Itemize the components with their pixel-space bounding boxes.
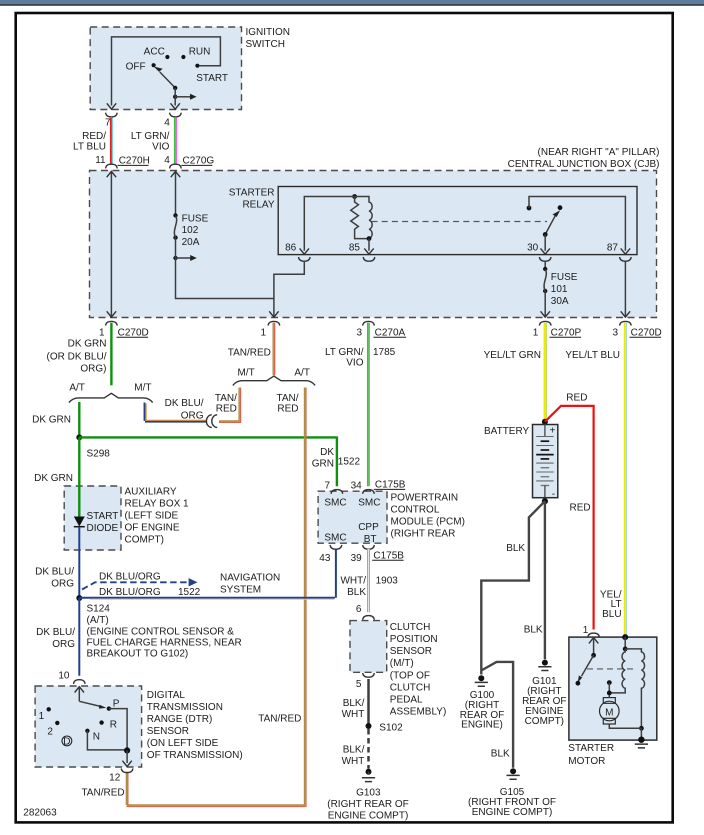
svg-text:BLU: BLU [602,609,621,620]
svg-text:CLUTCH: CLUTCH [390,622,431,633]
svg-text:TAN/RED: TAN/RED [81,788,124,799]
svg-text:WHT: WHT [342,756,365,767]
wire fuse 102 to pin 1 C270 tan feed [176,238,274,299]
svg-text:DIGITAL: DIGITAL [147,690,186,701]
relay fixed contact to pin 87 [527,206,532,211]
svg-text:ORG: ORG [181,411,204,422]
svg-text:5: 5 [356,679,362,690]
starter solenoid switch [589,638,598,644]
wire LT GRN/VIO pin4 to C270G [174,118,176,164]
connector halves below ignition switch [106,113,118,117]
svg-text:FUSE: FUSE [551,272,578,283]
svg-text:DK GRN: DK GRN [32,415,71,426]
svg-text:(LEFT SIDE: (LEFT SIDE [125,511,179,522]
svg-text:4: 4 [164,118,170,129]
svg-text:DK BLU/: DK BLU/ [165,398,204,409]
wire pivot to bottom edge [174,88,176,106]
wire fuse 101 to C270P [544,291,546,317]
svg-text:86: 86 [285,243,297,254]
wire BLK/WHT dashed S102 to G103 [367,729,370,769]
wire coil top to pin 86 [304,197,354,251]
svg-text:ASSEMBLY): ASSEMBLY) [390,707,447,718]
connector C270D pin 3 [620,321,632,325]
battery BAT [533,425,558,498]
ground G101 [542,660,548,666]
connector C270D pin 1 [106,321,118,325]
svg-text:BREAKOUT TO G102): BREAKOUT TO G102) [87,649,189,660]
svg-text:DK BLU/: DK BLU/ [36,627,75,638]
inline connector halves [206,415,211,428]
wire DK GRN S298 to PCM pin 7 [79,436,337,486]
connector starter pin 1 [588,633,600,637]
wire TAN/RED C270 pin1 down [272,323,274,375]
svg-text:SENSOR: SENSOR [147,726,189,737]
contact ACC [165,55,169,59]
wire relay 87 to C270D [624,262,626,317]
svg-text:6: 6 [356,604,362,615]
CJB wire from C270H pin 11 to C270D pin 1 [110,172,112,317]
svg-text:MODULE (PCM): MODULE (PCM) [391,517,465,528]
svg-text:+: + [549,425,555,436]
DTR contact 1 [47,707,51,711]
svg-text:YEL/LT GRN: YEL/LT GRN [484,350,541,361]
wire BLK battery to G100 [481,501,545,674]
svg-text:N: N [93,732,100,743]
connector clutch pin 5 [363,673,375,677]
wire YEL/LT GRN C270P to battery [544,323,546,422]
connector C175B PCM pin 43 [330,545,342,549]
svg-text:OFF: OFF [126,62,146,73]
svg-text:SWITCH: SWITCH [246,39,285,50]
svg-text:ENGINE COMPT): ENGINE COMPT) [472,807,553,818]
svg-text:(NEAR RIGHT "A" PILLAR): (NEAR RIGHT "A" PILLAR) [538,147,660,158]
wire DK BLU/ORG diode to S124 [78,527,80,598]
svg-text:S102: S102 [379,723,403,734]
solenoid hold-in winding [625,649,644,728]
starter motor box [569,637,657,740]
DTR contact P [107,706,111,710]
svg-text:4: 4 [164,155,170,166]
svg-text:DK BLU/ORG: DK BLU/ORG [99,572,161,583]
solenoid mechanical link [587,668,634,670]
svg-text:SYSTEM: SYSTEM [220,584,261,595]
svg-text:1522: 1522 [178,587,201,598]
svg-text:3: 3 [356,328,362,339]
svg-text:GRN: GRN [312,458,334,469]
motor M [603,698,615,704]
fuse F102 20A [173,213,177,217]
contact START [195,64,199,68]
svg-text:YEL/LT BLU: YEL/LT BLU [565,350,620,361]
svg-text:30: 30 [527,243,539,254]
wire relay 86 down joining tan feed [274,262,304,317]
wire DK GRN S298 to start diode [78,437,80,516]
svg-text:(ENGINE CONTROL SENSOR &: (ENGINE CONTROL SENSOR & [87,627,235,638]
svg-text:(RIGHT REAR: (RIGHT REAR [391,529,456,540]
wire RED/LT BLU pin7 to C270H [110,118,112,164]
wire DK BLU/ORG M/T branch to inline connector [144,403,146,421]
DTR contact 2 [55,721,59,725]
svg-text:NAVIGATION: NAVIGATION [220,572,280,583]
svg-text:COMPT): COMPT) [525,716,564,727]
DTR sensor box [35,686,142,767]
svg-text:CPP: CPP [358,522,379,533]
connector C270H [106,164,118,168]
svg-text:BLK: BLK [506,543,525,554]
relay coil winding [355,197,373,239]
svg-text:SMC: SMC [358,498,380,509]
connector DTR pin 10 [74,680,86,684]
splice S102 [366,723,372,729]
svg-text:87: 87 [607,243,619,254]
connector C270G [170,164,182,168]
relay switch blade pin 30 [545,214,556,234]
svg-text:M/T: M/T [134,383,151,394]
PCM box [318,491,387,543]
wire DK GRN A/T branch to S298 [78,402,80,436]
svg-text:ENGINE): ENGINE) [461,719,503,730]
ignition switch SW box [90,27,241,110]
svg-text:282063: 282063 [23,807,57,818]
svg-text:DK GRN: DK GRN [34,473,73,484]
DTR contact D circled [62,736,72,746]
DTR entry arrow [75,687,84,693]
svg-text:S124: S124 [87,603,111,614]
svg-text:7: 7 [105,118,111,129]
svg-text:IGNITION: IGNITION [246,27,290,38]
svg-text:BLK: BLK [491,749,510,760]
svg-text:1: 1 [39,711,45,722]
junction with arrow to other circuits [173,256,177,260]
svg-text:A/T: A/T [69,383,85,394]
DTR wire P and N to pin 12 [87,709,127,751]
svg-text:RED: RED [570,502,591,513]
svg-text:85: 85 [349,243,361,254]
connector C175B PCM pin 34 [363,490,375,494]
ground starter case [638,737,644,743]
brace split A/T M/T on DK GRN [69,393,153,402]
svg-text:M: M [605,708,613,719]
svg-text:OF TRANSMISSION): OF TRANSMISSION) [147,750,243,761]
svg-text:FUEL CHARGE HARNESS, NEAR: FUEL CHARGE HARNESS, NEAR [87,638,242,649]
wire TAN/RED inline connector to M/T brace [219,388,239,421]
contact RUN [181,55,185,59]
svg-text:VIO: VIO [346,357,363,368]
central junction box CJB [90,171,657,318]
svg-text:M/T: M/T [237,368,254,379]
svg-text:R: R [110,720,117,731]
svg-text:ORG): ORG) [80,364,106,375]
svg-text:1: 1 [583,625,589,636]
svg-text:7: 7 [324,480,330,491]
start diode D1 [74,517,85,527]
contact OFF [152,63,156,67]
svg-text:RUN: RUN [189,47,211,58]
svg-text:2: 2 [47,727,53,738]
wire WHT/BLK PCM 39 to clutch sensor [367,549,370,612]
wire DK BLU/ORG S124 to PCM pin 43 [79,549,336,598]
svg-text:DIODE: DIODE [87,523,119,534]
wire coil bottom to pin 85 [368,239,370,251]
svg-text:RANGE (DTR): RANGE (DTR) [147,714,213,725]
svg-text:101: 101 [551,284,568,295]
relay mechanical link [372,221,548,223]
svg-text:BATTERY: BATTERY [484,426,530,437]
svg-text:TAN/: TAN/ [215,393,237,404]
svg-text:-: - [552,489,555,500]
connector C175B PCM pin 39 [363,545,375,549]
svg-text:POWERTRAIN: POWERTRAIN [391,493,459,504]
svg-text:3: 3 [612,328,618,339]
svg-text:LT BLU: LT BLU [73,141,106,152]
svg-text:BT: BT [364,534,377,545]
wire BLK battery to G101 [544,501,546,659]
connector C175B PCM pin 7 [331,490,343,494]
connector C270A pin 3 [363,321,375,325]
svg-text:D: D [63,736,70,747]
wire DK BLU/ORG S124 to DTR pin 10 [78,598,80,676]
svg-text:11: 11 [95,155,106,166]
svg-text:1903: 1903 [376,576,399,587]
svg-text:WHT: WHT [342,709,365,720]
svg-text:1: 1 [99,328,105,339]
svg-text:34: 34 [351,480,363,491]
svg-text:G101: G101 [532,676,557,687]
svg-text:DK GRN: DK GRN [68,338,107,349]
svg-text:12: 12 [109,772,121,783]
svg-text:STARTER: STARTER [568,743,614,754]
svg-text:START: START [196,73,228,84]
connector C270P pin 1 [539,321,551,325]
svg-text:DK: DK [320,447,334,458]
svg-text:20A: 20A [182,237,200,248]
svg-text:1785: 1785 [373,347,396,358]
svg-text:(OR DK BLU/: (OR DK BLU/ [46,351,106,362]
svg-text:BLK/: BLK/ [343,744,365,755]
svg-text:102: 102 [182,225,199,236]
svg-text:CONTROL: CONTROL [391,505,440,516]
svg-text:RED: RED [277,403,298,414]
svg-text:RELAY: RELAY [242,200,274,211]
svg-text:BLK: BLK [347,587,366,598]
svg-text:ENGINE COMPT): ENGINE COMPT) [328,810,409,821]
connector clutch pin 6 [363,616,375,620]
svg-text:START: START [87,511,119,522]
svg-text:POSITION: POSITION [390,634,438,645]
splice S298 [76,434,82,440]
svg-text:39: 39 [351,553,363,564]
svg-text:ORG: ORG [51,579,74,590]
svg-text:1522: 1522 [338,456,361,467]
arrow to other circuits [175,96,191,98]
svg-text:43: 43 [319,553,331,564]
wire pin30 to fuse 101 [544,262,546,270]
motor M terminal [607,680,612,685]
ground G105 [510,768,516,774]
top title bar [0,0,704,4]
svg-text:WHT/: WHT/ [340,576,366,587]
svg-text:OF ENGINE: OF ENGINE [125,523,180,534]
wire DK GRN C270D to split [110,323,112,386]
wire LT GRN/VIO C270A to PCM pin 34 [367,323,369,486]
svg-text:STARTER: STARTER [229,188,275,199]
wire BLK/WHT clutch to S102 [367,679,370,726]
wire TAN/RED A/T branch to DTR pin 12 [126,388,304,806]
svg-text:(TOP OF: (TOP OF [390,671,430,682]
svg-text:30A: 30A [551,296,569,307]
ignition switch internal wire [112,37,221,106]
svg-text:VIO: VIO [152,141,169,152]
clutch position sensor box [350,621,387,673]
DTR contact R [99,720,103,724]
wire YEL/LT BLU C270D to starter [624,323,626,637]
svg-text:CLUTCH: CLUTCH [390,683,431,694]
svg-text:10: 10 [58,671,70,682]
svg-text:TAN/RED: TAN/RED [228,348,271,359]
svg-text:A/T: A/T [294,368,310,379]
ground G103 [366,769,372,775]
svg-text:(RIGHT REAR OF: (RIGHT REAR OF [327,799,408,810]
svg-text:TAN/: TAN/ [276,393,298,404]
svg-text:SMC: SMC [324,533,346,544]
wire RED battery to starter solenoid [545,406,594,630]
svg-text:SENSOR: SENSOR [390,646,432,657]
switch blade to OFF [160,72,175,88]
svg-text:(M/T): (M/T) [390,658,414,669]
svg-text:ACC: ACC [144,47,165,58]
CJB wire from C270G pin 4 to fuse 102 [175,172,177,216]
splice S124 [76,595,82,601]
junction node below pivot [173,95,177,99]
connector DTR pin 12 [121,768,133,772]
svg-text:DK BLU/: DK BLU/ [35,567,74,578]
relay open contact [558,205,563,210]
connector C270 pin 1 tan [268,321,280,325]
ground G100 [478,675,484,681]
svg-text:RELAY BOX 1: RELAY BOX 1 [125,499,190,510]
svg-text:MOTOR: MOTOR [568,756,605,767]
svg-text:COMPT): COMPT) [125,535,164,546]
svg-text:ORG: ORG [52,639,75,650]
svg-text:(A/T): (A/T) [87,615,109,626]
relay coil top node [352,194,357,199]
starter relay K1 box [278,187,637,255]
svg-text:CENTRAL JUNCTION BOX (CJB): CENTRAL JUNCTION BOX (CJB) [508,159,660,170]
svg-text:PEDAL: PEDAL [390,695,423,706]
svg-text:SMC: SMC [324,498,346,509]
brace split M/T A/T on TAN/RED [233,376,315,385]
aux relay box 1 [64,486,121,550]
svg-text:BLK: BLK [524,625,543,636]
fuse F101 30A [543,267,547,271]
DTR contact N [85,729,89,733]
svg-text:1: 1 [533,328,539,339]
svg-text:LT GRN/: LT GRN/ [325,347,364,358]
svg-text:S298: S298 [87,448,111,459]
svg-text:FUSE: FUSE [182,214,209,225]
svg-text:AUXILIARY: AUXILIARY [125,487,177,498]
svg-text:G103: G103 [356,787,381,798]
node yel wire at starter [622,634,628,640]
DTR selector blade to P [79,701,101,706]
svg-text:DK BLU/ORG: DK BLU/ORG [99,587,161,598]
svg-text:RED: RED [566,393,587,404]
svg-text:RED: RED [216,403,237,414]
node battery negative [542,498,548,504]
svg-text:(ON LEFT SIDE: (ON LEFT SIDE [147,738,219,749]
dashed arrow to navigation system [82,582,189,589]
svg-text:TRANSMISSION: TRANSMISSION [147,702,223,713]
relay resistor element [351,197,369,239]
solenoid pull-in winding [609,649,625,693]
svg-text:BLK/: BLK/ [343,698,365,709]
node battery positive [542,419,548,425]
svg-text:1: 1 [260,328,266,339]
wire BLK branch to G105 [481,662,513,768]
svg-text:TAN/RED: TAN/RED [258,714,301,725]
